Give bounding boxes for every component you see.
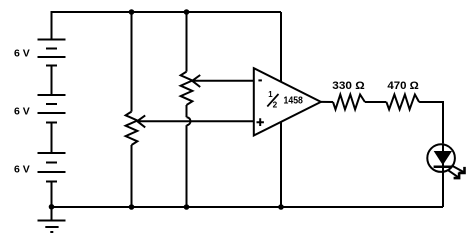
ground <box>38 221 66 233</box>
svg-text:6 V: 6 V <box>14 48 30 60</box>
svg-text:330 Ω: 330 Ω <box>332 80 364 92</box>
potentiometer R2 body <box>181 72 193 105</box>
svg-text:1: 1 <box>268 90 273 99</box>
LED D1 cathode bar <box>434 166 452 169</box>
wire op-amp output <box>321 101 333 103</box>
junction dot bottom op-amp <box>278 204 284 210</box>
wire crossover hop <box>187 117 191 125</box>
label 1/2 slash <box>267 94 278 107</box>
LED D1 light arrow 2 <box>448 170 459 178</box>
potentiometer R1 wiper arrow <box>137 115 254 127</box>
LED D1 triangle <box>435 152 452 165</box>
wire between resistors <box>365 101 387 103</box>
resistor 470 ohm <box>386 95 419 110</box>
wire LED vertical <box>442 143 444 207</box>
potentiometer R1 body <box>126 112 138 145</box>
junction dot bottom pot R1 <box>129 204 135 210</box>
svg-text:470 Ω: 470 Ω <box>387 80 418 92</box>
wire top rail <box>52 12 282 40</box>
op-amp U1 plus sign <box>257 118 264 126</box>
wire to LED <box>419 102 443 143</box>
wire pot R2 vertical mid <box>186 105 188 117</box>
junction dot top pot R2 <box>184 9 190 15</box>
svg-text:2: 2 <box>273 101 278 110</box>
wire op-amp power vertical <box>280 12 282 207</box>
svg-text:1458: 1458 <box>284 95 304 107</box>
op-amp U1 triangle <box>254 68 321 135</box>
battery B3 6V <box>38 153 66 182</box>
junction dot top pot R1 <box>129 9 135 15</box>
wire pot R2 vertical lower <box>186 125 188 207</box>
resistor 330 ohm <box>333 95 365 110</box>
LED D1 circle <box>427 144 455 172</box>
svg-text:6 V: 6 V <box>14 105 30 117</box>
wire pot R1 vertical lower <box>131 145 133 207</box>
junction dot bottom pot R2 <box>184 204 190 210</box>
op-amp U1 minus sign <box>258 79 262 81</box>
svg-text:6 V: 6 V <box>14 163 30 175</box>
wire bottom rail <box>52 206 444 208</box>
potentiometer R2 wiper arrow <box>192 75 254 87</box>
wire battery stack links <box>51 66 53 221</box>
wire pot R1 vertical upper <box>131 12 133 112</box>
battery B1 6V <box>38 40 66 66</box>
wire pot R2 vertical upper <box>186 12 188 72</box>
junction dot bottom ground <box>49 204 55 210</box>
battery B2 6V <box>38 95 66 123</box>
LED D1 light arrow 1 <box>451 165 464 173</box>
